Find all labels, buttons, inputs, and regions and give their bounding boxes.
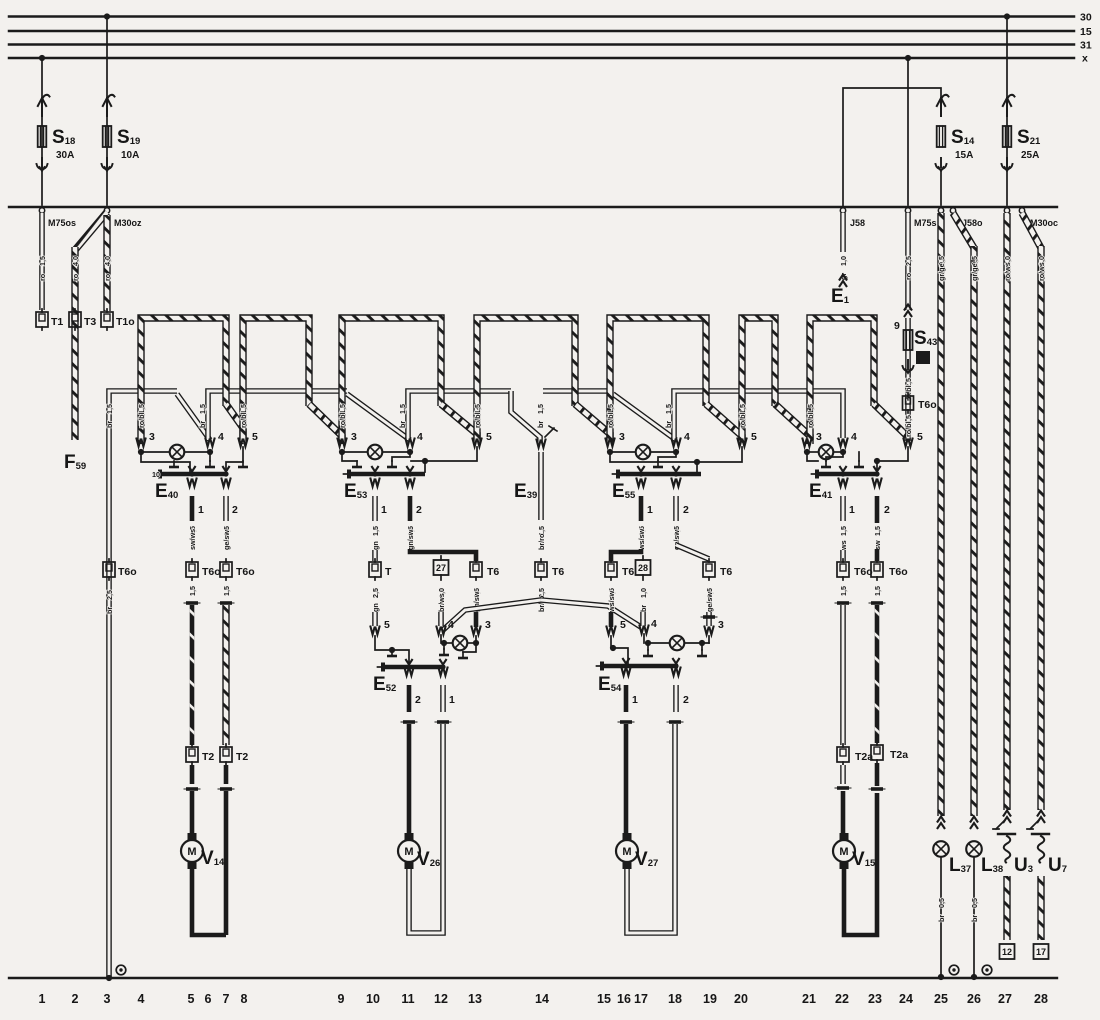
wire E52 contact4 stub [443, 643, 445, 649]
wire E41 contact4 branch [826, 452, 843, 461]
wire ground dive to E55 contact 4 [613, 394, 676, 440]
svg-text:ro: ro [103, 273, 112, 281]
motor V14 [181, 833, 203, 869]
svg-text:1,5: 1,5 [105, 404, 114, 414]
svg-text:9: 9 [894, 320, 900, 332]
plug 17 [1034, 944, 1049, 959]
connector T2 right [220, 744, 232, 765]
svg-text:J58: J58 [850, 218, 865, 228]
svg-text:4,0: 4,0 [103, 256, 112, 266]
svg-text:17: 17 [1036, 947, 1046, 957]
plug connection L37 [937, 817, 945, 830]
svg-text:5: 5 [620, 619, 626, 631]
svg-text:2: 2 [416, 504, 422, 516]
connector T6o on S43 wire [903, 393, 914, 413]
connector T6o E40-1 [186, 559, 198, 580]
svg-text:25: 25 [934, 992, 948, 1006]
svg-text:1,5: 1,5 [839, 586, 848, 596]
wire E40 terminal 1 [187, 478, 197, 487]
contact 3 of E52 [471, 626, 481, 635]
wire to V14 plus [190, 605, 195, 745]
svg-text:1: 1 [647, 504, 653, 516]
wire E41 terminal 2 [872, 478, 882, 487]
svg-text:5: 5 [917, 431, 923, 443]
wire E54 terminal 2 [671, 667, 681, 676]
svg-text:1,5: 1,5 [873, 586, 882, 596]
svg-text:br: br [198, 421, 207, 428]
wire 27 to E52 contact 4 [438, 612, 444, 626]
svg-text:1,0: 1,0 [639, 588, 648, 598]
indicator lamp in E40 [141, 451, 169, 453]
svg-text:M: M [622, 846, 631, 858]
wire diagonal to T6 right [676, 545, 709, 559]
arrow below S43 [903, 360, 914, 373]
indicator lamp in E52 [444, 642, 452, 644]
wire J58 to E1 [840, 213, 846, 252]
svg-text:0,5: 0,5 [937, 898, 946, 908]
svg-text:1: 1 [449, 694, 455, 706]
svg-text:28: 28 [638, 563, 648, 573]
wire E54 contact4 stub [647, 643, 649, 650]
svg-text:3: 3 [149, 431, 155, 443]
rail terminal M30oz [104, 208, 109, 213]
connector T E53-1 [369, 559, 381, 580]
wire to E54 contact 3 [706, 612, 712, 626]
contact 4 of E55 [671, 438, 681, 447]
svg-text:1,0: 1,0 [839, 256, 848, 266]
wire M75s column [907, 58, 909, 205]
wire 28 to E54 contact 4 [640, 612, 646, 626]
svg-text:6: 6 [205, 992, 212, 1006]
svg-text:ro/bl: ro/bl [806, 412, 815, 428]
svg-text:1,5: 1,5 [38, 256, 47, 266]
wire below E39 [538, 452, 544, 520]
wire to E54 contact 5 [609, 612, 614, 627]
svg-text:5: 5 [188, 992, 195, 1006]
wire loop E40 c3 to c5 [141, 318, 226, 444]
svg-text:br/ws: br/ws [437, 593, 446, 612]
wire M75s to S43 [905, 213, 911, 310]
junction ground bus at rail [106, 975, 112, 981]
contact 3 of E53 [337, 438, 347, 447]
svg-text:14: 14 [535, 992, 549, 1006]
svg-text:11: 11 [401, 992, 414, 1006]
wire elbow to T6 [410, 549, 476, 561]
contact 3 of E54 [704, 626, 714, 635]
wire E40 contact4 stub [209, 452, 211, 461]
contact 5 of E53 [472, 438, 482, 447]
wire E53 contact3 branch [342, 452, 357, 461]
svg-text:ro/bl: ro/bl [738, 412, 747, 428]
svg-text:sw/ws: sw/ws [188, 529, 197, 550]
indicator lamp in E41 [807, 451, 818, 453]
svg-text:1: 1 [198, 504, 204, 516]
terminal bar E52 [405, 659, 412, 665]
svg-text:M: M [187, 846, 196, 858]
terminal stub E41 [858, 452, 860, 461]
rail terminal M30oc [1004, 208, 1009, 213]
wire V14 return loop [192, 791, 226, 935]
wire to T2a left [840, 605, 846, 745]
svg-text:ro/bl: ro/bl [137, 412, 146, 428]
svg-text:15A: 15A [955, 150, 973, 161]
svg-text:br: br [105, 607, 114, 614]
svg-text:br: br [937, 915, 946, 922]
contact 4 of E41 [838, 438, 848, 447]
connector T6o ground [103, 559, 115, 580]
svg-text:M: M [839, 846, 848, 858]
bus bar x [9, 57, 1074, 60]
svg-text:T2a: T2a [890, 749, 908, 761]
svg-text:gn: gn [371, 541, 380, 550]
bus bar 30 [9, 15, 1074, 18]
plug connection U3 [1003, 811, 1011, 824]
junction S21 on bus 30 [1004, 13, 1010, 19]
warning lamp L37 [933, 841, 949, 857]
wire M30oc to U3 [1003, 213, 1010, 810]
svg-text:30: 30 [1080, 12, 1092, 24]
wire ground dive to E53 contact 4 [347, 394, 410, 440]
svg-text:15: 15 [1080, 26, 1092, 38]
svg-text:M75os: M75os [48, 218, 76, 228]
svg-text:13: 13 [468, 992, 482, 1006]
wire E39 to E52 contact 4 [443, 600, 541, 630]
connector T6o E40-2 [220, 559, 232, 580]
wire E53 contact4 branch [392, 452, 410, 461]
svg-text:T2: T2 [202, 751, 214, 763]
svg-text:br: br [536, 421, 545, 428]
connector T3 [69, 309, 81, 330]
svg-text:16: 16 [617, 992, 631, 1006]
svg-text:2: 2 [683, 694, 689, 706]
svg-text:1,5: 1,5 [873, 526, 882, 536]
connector T6o E41-1 [837, 559, 849, 580]
terminal bar E40 [188, 466, 195, 472]
track numbers [39, 992, 1048, 1006]
motor V15 [833, 833, 855, 869]
wire ground dive to E39 [511, 391, 540, 444]
interconnecting rail [9, 206, 1057, 208]
contact 5 of E55 [737, 438, 747, 447]
wire E53 terminal 2 [405, 478, 415, 487]
wire L37 to ground [940, 857, 942, 977]
svg-text:T3: T3 [84, 316, 96, 328]
wire elbow to T6 left [611, 549, 641, 561]
svg-text:0,5: 0,5 [970, 898, 979, 908]
wire to V14 minus [222, 605, 229, 745]
svg-text:22: 22 [835, 992, 849, 1006]
svg-text:10: 10 [152, 470, 160, 479]
connector T1 [36, 309, 48, 330]
svg-text:7: 7 [223, 992, 230, 1006]
svg-text:27: 27 [998, 992, 1012, 1006]
svg-text:26: 26 [967, 992, 981, 1006]
fuse S19 [103, 95, 115, 116]
wire J58o to L38 [953, 213, 974, 248]
wire V15 return loop [844, 793, 877, 935]
connector T6o E41-2 [871, 559, 883, 580]
wire E39 to E54 contact 4 [541, 600, 644, 629]
wire loop E40 c5 to E53 c3 [243, 318, 309, 444]
wire M30oz branch to T3 and F59 [75, 212, 107, 250]
svg-text:23: 23 [868, 992, 882, 1006]
svg-text:12: 12 [1002, 947, 1012, 957]
svg-text:ro/bl: ro/bl [904, 421, 913, 437]
svg-text:T1o: T1o [116, 316, 135, 328]
svg-text:ws/sw: ws/sw [637, 528, 646, 551]
plug connection E1 [839, 275, 847, 288]
svg-text:3: 3 [351, 431, 357, 443]
svg-text:3: 3 [718, 619, 724, 631]
bus bar 15 [9, 30, 1074, 33]
svg-text:T6: T6 [720, 566, 732, 578]
wire E54 contact3 branch [701, 643, 703, 650]
wire J58o to L37 [937, 213, 944, 816]
svg-text:1,5: 1,5 [398, 404, 407, 414]
wire E55 contact4 branch [658, 452, 676, 461]
fuse S18 [38, 95, 50, 116]
svg-text:1,5: 1,5 [198, 404, 207, 414]
wire E53 terminal 1 [370, 478, 380, 487]
svg-text:T6o: T6o [918, 399, 937, 411]
svg-text:br: br [105, 421, 114, 428]
wire below U7 [1037, 876, 1044, 940]
svg-text:gr/ge: gr/ge [937, 263, 946, 281]
contact 5 of E52 [370, 626, 380, 635]
wire M30oz to T1o [103, 215, 110, 311]
plug 12 [1000, 944, 1015, 959]
svg-text:2,5: 2,5 [904, 256, 913, 266]
contact 4 of E40 [205, 438, 215, 447]
ground symbol at track 26 [982, 965, 992, 975]
wire E40 contact3 branch [141, 452, 190, 472]
svg-text:17: 17 [634, 992, 648, 1006]
switch E39 [536, 439, 546, 448]
contact 4 of E53 [405, 438, 415, 447]
motor V26 [398, 833, 420, 869]
contact 3 of E40 [136, 438, 146, 447]
junction M75s on bus x [905, 55, 911, 61]
wire S18 column [41, 58, 43, 205]
wire loop E53 c5 to E55 c3 [477, 318, 575, 444]
svg-text:2,5: 2,5 [371, 588, 380, 598]
svg-text:T6o: T6o [889, 566, 908, 578]
svg-text:ro: ro [38, 273, 47, 281]
wire S19 column [106, 17, 108, 206]
wire E53 contact5 branch [411, 447, 477, 472]
wire M75os to T1 [39, 213, 45, 310]
wire loop E55 c5 to E41 c3 [742, 318, 775, 444]
svg-text:M30oc: M30oc [1030, 218, 1058, 228]
svg-text:T1: T1 [51, 316, 63, 328]
svg-text:1: 1 [381, 504, 387, 516]
svg-text:4: 4 [448, 619, 454, 631]
svg-text:20: 20 [734, 992, 748, 1006]
connector T6 E39 [535, 559, 547, 580]
svg-text:ro/ws: ro/ws [1003, 262, 1012, 281]
svg-text:T6: T6 [622, 566, 634, 578]
wire to E52 contact 3 [474, 612, 479, 627]
cigarette lighter U7 [1027, 821, 1049, 863]
rail terminal M75s [905, 208, 910, 213]
wire E52 terminal 1 [438, 667, 448, 676]
indicator lamp in E53 [342, 451, 367, 453]
connector T6 E55-2 [703, 559, 715, 580]
svg-text:3: 3 [619, 431, 625, 443]
bottom rail [9, 977, 1057, 979]
svg-text:1,5: 1,5 [664, 404, 673, 414]
svg-text:ge/sw: ge/sw [705, 592, 714, 612]
fuse S14 [937, 95, 949, 116]
plug 28 [636, 560, 651, 575]
svg-text:ws/sw: ws/sw [607, 590, 616, 613]
svg-text:12: 12 [434, 992, 448, 1006]
rail terminal J58o [938, 208, 943, 213]
wire E55 terminal 2 [671, 478, 681, 487]
wire bracket S14 feed / J58 [843, 88, 941, 206]
terminal bar E55 [637, 466, 644, 472]
junction S19 on bus 30 [104, 13, 110, 19]
wire to V26 [407, 724, 412, 834]
terminal bar E54 [622, 658, 629, 664]
svg-text:br: br [970, 915, 979, 922]
svg-text:25A: 25A [1021, 150, 1039, 161]
wire ground bus right (br) [543, 388, 613, 394]
contact 4 of E52 [436, 626, 446, 635]
ground symbol at track 25 [949, 965, 959, 975]
svg-text:br: br [664, 421, 673, 428]
svg-text:9: 9 [338, 992, 345, 1006]
svg-text:ro: ro [71, 273, 80, 281]
svg-text:M: M [404, 846, 413, 858]
wire below U3 [1003, 876, 1010, 940]
svg-text:4: 4 [417, 431, 423, 443]
junction S18 on bus x [39, 55, 45, 61]
svg-text:gr/ge: gr/ge [970, 263, 979, 281]
svg-text:x: x [1082, 53, 1088, 65]
wire L38 to ground [973, 857, 975, 977]
wire ground rise from E53 contact 4 [408, 391, 511, 440]
svg-text:3: 3 [816, 431, 822, 443]
svg-text:1,5: 1,5 [222, 586, 231, 596]
cigarette lighter U3 [993, 821, 1015, 863]
connector T2a left [837, 744, 849, 765]
svg-text:4: 4 [218, 431, 224, 443]
svg-text:sw: sw [873, 540, 882, 550]
svg-text:2,5: 2,5 [105, 590, 114, 600]
wire ground bus left (br) [109, 391, 177, 977]
svg-text:T6o: T6o [854, 566, 873, 578]
bus bar 31 [9, 43, 1074, 46]
svg-text:ro/ws: ro/ws [1037, 262, 1046, 281]
svg-text:2: 2 [72, 992, 79, 1006]
svg-text:4: 4 [651, 618, 657, 630]
contact 3 of E55 [605, 438, 615, 447]
svg-text:3: 3 [104, 992, 111, 1006]
svg-text:30A: 30A [56, 150, 74, 161]
contact 3 of E41 [802, 438, 812, 447]
connector T2a right [871, 742, 883, 763]
svg-text:18: 18 [668, 992, 682, 1006]
svg-text:2: 2 [415, 694, 421, 706]
ground symbol at track 3 [116, 965, 126, 975]
svg-text:T: T [385, 566, 392, 578]
contact 5 of E54 [606, 626, 616, 635]
wire loop E53 c3 to c5 [342, 318, 441, 444]
svg-text:27: 27 [436, 563, 446, 573]
plug connection U7 [1037, 811, 1045, 824]
svg-text:1,5: 1,5 [839, 526, 848, 536]
svg-text:ro/bl: ro/bl [239, 412, 248, 428]
wire loop E41 c3 to c5 [810, 318, 874, 444]
wire V27 return loop [627, 724, 675, 933]
svg-text:4: 4 [851, 431, 857, 443]
wire E52 contact3 branch [463, 643, 476, 652]
svg-text:gn/sw: gn/sw [406, 529, 415, 550]
svg-text:T6o: T6o [118, 566, 137, 578]
svg-text:4: 4 [684, 431, 690, 443]
svg-text:15: 15 [597, 992, 611, 1006]
svg-text:4,0: 4,0 [71, 256, 80, 266]
svg-text:ro/bl: ro/bl [473, 412, 482, 428]
wire E41 terminal 1 [838, 478, 848, 487]
svg-text:19: 19 [703, 992, 717, 1006]
wire ground rise from E55 contact 4 [674, 391, 843, 440]
svg-text:2: 2 [884, 504, 890, 516]
wire E55 terminal 1 [636, 478, 646, 487]
wire E41 contact3 stub [807, 452, 818, 461]
wire E54 terminal 1 [621, 667, 631, 676]
warning lamp L38 [966, 841, 982, 857]
svg-text:1,5: 1,5 [536, 404, 545, 414]
svg-text:ro/bl: ro/bl [606, 412, 615, 428]
svg-text:T6: T6 [552, 566, 564, 578]
svg-text:21: 21 [802, 992, 816, 1006]
rail terminal J58 [840, 208, 845, 213]
svg-text:8: 8 [241, 992, 248, 1006]
connector T6 E55-1 [605, 559, 617, 580]
wire V26 return loop [409, 724, 443, 933]
svg-text:3: 3 [485, 619, 491, 631]
svg-text:T2: T2 [236, 751, 248, 763]
svg-text:1,5: 1,5 [188, 586, 197, 596]
svg-text:T6: T6 [487, 566, 499, 578]
wire to E52 contact 5 [372, 612, 378, 626]
terminal bar E53 [371, 466, 378, 472]
wire to T2a right [875, 605, 880, 743]
terminal bar E41 [839, 466, 846, 472]
fuse S43 [905, 318, 911, 441]
svg-text:1: 1 [39, 992, 46, 1006]
svg-text:5: 5 [252, 431, 258, 443]
svg-text:1: 1 [632, 694, 638, 706]
wire ground dive to E40 contact 4 [177, 394, 210, 440]
svg-text:M30oz: M30oz [114, 218, 142, 228]
svg-text:gn: gn [371, 603, 380, 612]
svg-text:br: br [639, 605, 648, 612]
plug connection on M75s wire [904, 305, 912, 318]
plug 27 [434, 560, 449, 575]
wire E41 contact5 branch [876, 447, 908, 472]
wire E52 contact5 branch [375, 636, 409, 665]
svg-text:5: 5 [384, 619, 390, 631]
svg-text:br: br [398, 421, 407, 428]
wire E40 contact5 branch [226, 447, 243, 472]
connector T6 E53-2 [470, 559, 482, 580]
rail terminal M75os [39, 208, 44, 213]
wire M30oc to U7 [1022, 213, 1041, 248]
wire ground rise from E40 contact 4 [208, 391, 347, 440]
